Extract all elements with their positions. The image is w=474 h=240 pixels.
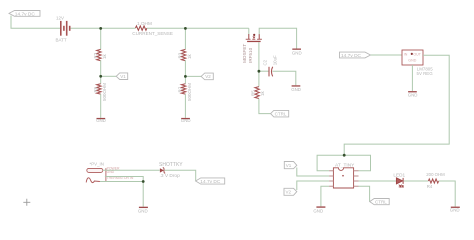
svg-text:*PV_IN: *PV_IN — [90, 162, 104, 167]
wire R3 to node V2 — [184, 60, 186, 83]
svg-text:14.7v DC: 14.7v DC — [15, 11, 36, 17]
tag 14.7v DC (top-left net label) — [9, 11, 40, 18]
svg-text:1k: 1k — [187, 53, 192, 59]
wire R4 to ground — [439, 181, 456, 207]
svg-text:14.7v DC: 14.7v DC — [341, 53, 362, 59]
svg-text:10uF: 10uF — [272, 55, 277, 65]
ground (right of mosfet) — [292, 49, 302, 56]
tag 14.7v DC (bottom, net to regulator) — [196, 178, 225, 185]
wire node V1 to tag V1 — [101, 75, 117, 77]
LED1 — [393, 173, 405, 188]
origin cross mark — [23, 199, 30, 206]
wire schottky cathode right then down to tag tip — [164, 170, 196, 181]
svg-text:R2: R2 — [93, 52, 98, 58]
svg-text:500OHM: 500OHM — [187, 83, 192, 101]
svg-text:.3 V Drop: .3 V Drop — [160, 173, 181, 179]
resistor R2 1k — [93, 49, 107, 60]
tag V2 (IC input) — [284, 188, 297, 195]
svg-text:V2: V2 — [286, 190, 292, 195]
wire node D to IC pin 1 (left loop) — [317, 155, 344, 171]
svg-text:IRF510: IRF510 — [248, 47, 253, 63]
wire IC pin 5 to tag CTRL — [359, 186, 370, 201]
wire node B to mosfet — [185, 27, 248, 29]
svg-text:R6: R6 — [93, 86, 98, 92]
node A (junction) — [99, 27, 102, 30]
svg-text:1k: 1k — [102, 53, 107, 59]
ground (below IC) — [313, 206, 325, 213]
wire node E to ground — [142, 182, 144, 207]
svg-text:OUT: OUT — [413, 53, 421, 57]
wire tag V1 to IC pin 2 — [297, 168, 329, 177]
wire connector THERMISTOR pin to node E — [100, 181, 143, 183]
resistor R4 200 OHM — [426, 172, 445, 189]
wire battery to node A — [71, 27, 101, 29]
tag V2 (right divider) — [201, 73, 213, 80]
node E junction — [142, 180, 145, 183]
ground (right of R4) — [450, 207, 460, 213]
wire regulator OUT to node D (around right and down) — [344, 55, 449, 155]
resistor R7 500OHM — [178, 83, 192, 101]
svg-text:1 OHM: 1 OHM — [137, 21, 152, 26]
wire node B down to R3 — [184, 28, 186, 49]
svg-text:LED1: LED1 — [393, 173, 405, 178]
svg-text:CTRL: CTRL — [375, 200, 387, 205]
wire tag to regulator IN — [371, 54, 403, 56]
svg-text:SHOTTKY: SHOTTKY — [159, 162, 183, 168]
tag 14.7v DC (regulator input) — [340, 52, 371, 59]
svg-text:BATT: BATT — [56, 37, 67, 42]
wire tag V2 to IC pin 3 — [297, 181, 329, 190]
wire node C to R5 — [258, 71, 260, 86]
tag CTRL (gate control) — [271, 110, 289, 117]
svg-text:GND: GND — [408, 92, 418, 97]
svg-text:5V REG: 5V REG — [417, 71, 434, 76]
transistor Q1 MOSFET IRF510 — [242, 34, 262, 63]
wire connector GND pin to node E — [105, 177, 143, 182]
wire node C to capacitor — [259, 70, 269, 72]
svg-text:V1: V1 — [120, 74, 126, 79]
wire R5 to tag CTRL — [259, 99, 271, 114]
wire node A down to R2 — [100, 28, 102, 49]
svg-text:GND: GND — [181, 118, 191, 123]
svg-text:GND: GND — [138, 208, 148, 213]
ground (below connector) — [138, 207, 148, 214]
svg-text:GND: GND — [96, 118, 106, 123]
svg-text:GND: GND — [408, 59, 416, 63]
svg-text:14.7v DC: 14.7v DC — [200, 179, 221, 185]
svg-text:500OHM: 500OHM — [102, 83, 107, 101]
tag V1 (left divider) — [116, 73, 128, 80]
IC U1 AT_TINY — [329, 163, 358, 189]
svg-text:R5: R5 — [251, 90, 256, 96]
wire from tag to battery — [11, 16, 60, 29]
svg-text:V2: V2 — [205, 74, 211, 79]
svg-text:R3: R3 — [178, 52, 183, 58]
svg-text:AT_TINY: AT_TINY — [335, 163, 355, 169]
svg-text:R4: R4 — [427, 184, 433, 189]
wire mosfet gate down to node C — [258, 42, 260, 71]
node V2 junction — [184, 75, 187, 78]
svg-text:1k: 1k — [260, 90, 265, 96]
wire node D to IC pin 8 (right loop) — [344, 155, 370, 171]
wire capacitor to ground — [272, 71, 295, 85]
wire R7 to ground — [184, 94, 186, 118]
diode D1 SHOTTKY .3 V Drop — [159, 162, 183, 179]
ground (below regulator) — [408, 91, 418, 97]
wire R2 to node V1 — [100, 60, 102, 83]
svg-text:R7: R7 — [178, 86, 183, 92]
svg-text:GND: GND — [292, 50, 302, 55]
svg-text:GND: GND — [450, 208, 460, 213]
tag V1 (IC input) — [284, 162, 297, 169]
svg-text:V1: V1 — [286, 163, 292, 168]
wire into mosfet left terminal — [248, 28, 250, 34]
svg-text:MOSFET: MOSFET — [242, 44, 247, 63]
svg-text:200 OHM: 200 OHM — [426, 172, 445, 177]
wire regulator GND pin to ground — [411, 65, 413, 91]
node B (junction) — [184, 27, 187, 30]
node V1 junction — [99, 75, 102, 78]
wire IC pin 4 to ground — [321, 186, 329, 206]
svg-text:GND: GND — [313, 209, 323, 214]
wire R1 to node B — [147, 27, 186, 29]
battery BATT 12V — [56, 15, 71, 42]
wire R6 to ground — [100, 94, 102, 118]
capacitor C2 10uF — [262, 55, 277, 76]
tag CTRL (IC output) — [370, 199, 390, 205]
svg-text:GND: GND — [291, 87, 301, 92]
svg-text:CTRL: CTRL — [275, 112, 287, 117]
connector J1 *PV_IN — [86, 162, 134, 183]
svg-text:IN: IN — [404, 53, 408, 57]
wire IC pin 6 to LED1 — [359, 180, 397, 182]
wire LED1 to R4 — [404, 180, 429, 182]
svg-text:12V: 12V — [56, 15, 64, 20]
svg-text:C2: C2 — [262, 59, 267, 65]
node D junction — [343, 154, 346, 157]
wire mosfet right terminal up and to ground — [259, 28, 296, 48]
wire node A to R1 — [101, 27, 136, 29]
node C junction — [258, 70, 261, 73]
ground (right of capacitor) — [291, 85, 301, 92]
svg-text:CURRENT_SENSE: CURRENT_SENSE — [132, 31, 173, 36]
wire connector POWER pin to schottky — [103, 169, 160, 171]
resistor R3 1k — [178, 49, 192, 60]
resistor R1 1 OHM CURRENT_SENSE — [132, 21, 173, 36]
ground (below R6) — [96, 118, 106, 123]
wire node V2 to tag V2 — [185, 75, 201, 77]
voltage regulator U2 LM7805 5V REG — [402, 50, 433, 76]
ground (below R7) — [181, 118, 191, 123]
resistor R6 500OHM — [93, 83, 107, 101]
resistor R5 1k (gate pulldown) — [251, 87, 265, 99]
